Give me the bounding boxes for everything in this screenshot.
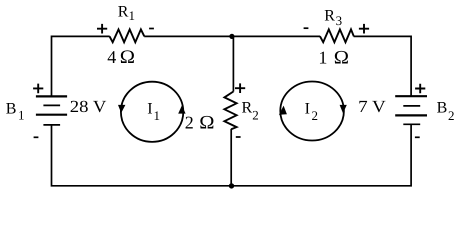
svg-text:28 V: 28 V — [70, 97, 107, 116]
wire bottom rail with left and right risers — [52, 124, 412, 186]
svg-text:1: 1 — [129, 8, 136, 23]
polarity - of R3 — [304, 27, 309, 29]
label B2 — [437, 100, 455, 124]
resistor R3 — [320, 29, 354, 42]
label R3 — [324, 7, 342, 28]
polarity + of R1 — [97, 24, 107, 34]
battery B1 — [36, 96, 67, 125]
svg-text:1: 1 — [18, 108, 25, 123]
svg-text:2: 2 — [185, 112, 194, 132]
wire top-left corner (B1 top to R1) — [52, 36, 110, 96]
svg-text:Ω: Ω — [334, 47, 349, 68]
node B (bottom junction dot) — [229, 183, 234, 188]
label B1 — [6, 100, 25, 122]
svg-text:2: 2 — [448, 108, 455, 123]
mesh current I1 arrowhead right (up) — [178, 105, 185, 113]
svg-text:2: 2 — [252, 108, 258, 123]
wire middle top stub (node to R2) — [232, 36, 234, 91]
polarity - of R1 — [149, 28, 154, 30]
svg-text:2: 2 — [312, 108, 319, 123]
svg-text:4: 4 — [107, 47, 116, 67]
mesh current loop I2 — [280, 82, 344, 141]
polarity + of B1 — [33, 84, 43, 94]
svg-text:7 V: 7 V — [358, 97, 386, 116]
svg-text:B: B — [437, 100, 448, 117]
polarity - of B1 — [34, 136, 39, 138]
polarity - of B2 — [415, 136, 420, 138]
resistor R2 — [224, 92, 236, 130]
wire top-right corner (R3 to B2 top) — [354, 36, 412, 96]
polarity + of B2 — [415, 84, 425, 94]
svg-text:B: B — [6, 100, 17, 117]
polarity + of R2 — [235, 83, 245, 93]
mesh current I1 arrowhead left (down) — [118, 105, 125, 113]
polarity + of R3 — [359, 24, 369, 34]
svg-text:I: I — [305, 100, 310, 117]
label I2 — [305, 100, 318, 123]
node A (top junction dot) — [229, 34, 234, 39]
wire top rail R1 to R3 — [144, 35, 320, 37]
resistor R1 — [110, 29, 145, 42]
battery B2 — [395, 96, 427, 124]
label R2 — [242, 100, 259, 123]
mesh current loop I1 — [121, 82, 183, 142]
label R1 — [118, 3, 135, 23]
svg-text:I: I — [147, 100, 152, 117]
svg-text:Ω: Ω — [120, 47, 135, 68]
svg-text:3: 3 — [336, 13, 343, 28]
mesh current I2 arrowhead right (down) — [340, 105, 347, 113]
wire middle bottom stub (R2 to node) — [230, 129, 232, 186]
mesh current I2 arrowhead left (up) — [279, 106, 287, 115]
svg-text:R: R — [118, 3, 129, 20]
svg-text:1: 1 — [154, 108, 161, 123]
svg-text:R: R — [324, 7, 335, 24]
svg-text:Ω: Ω — [199, 112, 214, 133]
label I1 — [147, 100, 160, 123]
svg-text:R: R — [242, 100, 253, 117]
svg-text:1: 1 — [318, 47, 327, 67]
polarity - of R2 — [236, 136, 241, 138]
